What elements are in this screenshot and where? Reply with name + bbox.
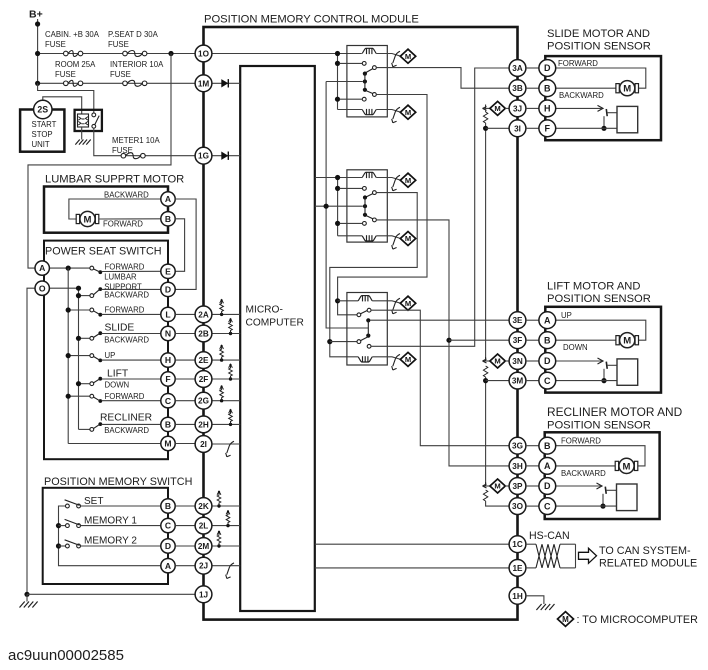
svg-text:2I: 2I — [200, 440, 207, 449]
lumbar motor box — [44, 187, 168, 233]
svg-text:C: C — [544, 376, 551, 386]
junction dot RY2 rail top — [335, 175, 340, 180]
wire B+ branch to relay switch — [38, 83, 94, 113]
position memory control module box — [204, 27, 518, 620]
fuse CABIN +B 30A — [64, 51, 83, 57]
junction dot rail1 slide — [66, 307, 71, 312]
wire slide wiper into sensor — [607, 112, 617, 114]
switch recliner backward — [90, 422, 102, 431]
junction dot RY1 rail top — [335, 51, 340, 56]
wire twist join — [575, 544, 577, 568]
contact RY2 lower throw — [373, 218, 377, 222]
svg-text:RECLINER: RECLINER — [100, 412, 152, 423]
wire lumbar B to E jog — [175, 219, 185, 271]
wire recliner B to motor — [556, 446, 645, 466]
svg-text:START: START — [32, 120, 57, 129]
junction dot memory rail C — [56, 523, 61, 528]
svg-text:3O: 3O — [512, 502, 524, 511]
svg-text:D: D — [165, 284, 171, 294]
svg-text:COMPUTER: COMPUTER — [246, 318, 304, 329]
wire rail2 stub lumbar-backward — [79, 295, 92, 297]
svg-text:B: B — [544, 441, 551, 451]
diamond to-microcomputer RY1b — [400, 105, 415, 119]
wire 2E into micro — [212, 359, 240, 361]
wire rail1 stub recliner-forward — [68, 395, 91, 397]
fuse METER1 10A — [121, 153, 145, 159]
wire 2B into micro — [212, 333, 240, 335]
wire slide B to motor — [556, 87, 616, 89]
svg-text:LIFT MOTOR AND: LIFT MOTOR AND — [547, 281, 640, 293]
fuse INTERIOR 10A — [123, 80, 147, 86]
connector module 2H — [195, 416, 212, 433]
wire RY2 upper fixed — [340, 187, 363, 189]
node B+ terminal dot — [35, 21, 40, 26]
svg-text:1H: 1H — [512, 592, 523, 601]
wire RY1 upper arm — [366, 69, 373, 73]
wire lumbar B to motor — [99, 218, 161, 220]
connector module 3O — [509, 498, 526, 515]
svg-text:CABIN. +B 30A: CABIN. +B 30A — [45, 30, 100, 39]
wire 3P stub — [483, 485, 491, 487]
svg-text:3B: 3B — [512, 84, 523, 93]
contact RY1 upper fixed — [362, 62, 366, 66]
junction dot rail2 slide — [76, 336, 81, 341]
wire 3M feed — [486, 380, 510, 382]
wire 3N diamond to connector — [505, 360, 509, 362]
wire 2K into micro — [212, 505, 240, 507]
svg-text:A: A — [165, 194, 171, 204]
svg-text:MEMORY 2: MEMORY 2 — [84, 536, 137, 547]
svg-text:B: B — [544, 83, 551, 93]
connector lift B — [539, 332, 556, 349]
connector slide D — [539, 60, 556, 77]
pull-up glyph at 2B — [229, 318, 233, 335]
junction dot relay3 lower feed — [327, 339, 332, 344]
wire 3B to B — [526, 87, 539, 89]
wire 3F feed — [449, 339, 509, 341]
switch slide forward — [90, 308, 102, 317]
connector memory-switch A — [161, 559, 175, 573]
wire 3J to H — [526, 107, 539, 109]
micro-computer box — [240, 66, 315, 611]
wire micro bus feed — [315, 205, 363, 207]
svg-text:LIFT: LIFT — [107, 368, 129, 379]
svg-text:METER1 10A: METER1 10A — [112, 136, 160, 145]
diamond to-microcomputer 3N — [490, 354, 505, 368]
svg-text:POSITION SENSOR: POSITION SENSOR — [547, 41, 651, 53]
sensor rail seg2 — [485, 123, 487, 361]
wire switch to C — [102, 400, 162, 402]
pull-up glyph at 2K — [217, 491, 221, 508]
wire RY1 rail to coil2 — [338, 109, 363, 111]
svg-text:H: H — [544, 104, 551, 114]
connector module 2J — [195, 557, 212, 574]
wiper arrow lift — [598, 358, 604, 364]
relay RY2 coil top — [362, 172, 376, 178]
wire micro to 1C — [315, 543, 509, 545]
svg-text:FUSE: FUSE — [55, 70, 76, 79]
stub arrow 3P — [483, 482, 487, 488]
wire 3P to D — [526, 485, 539, 487]
connector module 2G — [195, 392, 212, 409]
wire memory C row to module — [175, 525, 195, 527]
wire ground stem bottom-left — [26, 594, 28, 601]
svg-text:3J: 3J — [513, 104, 522, 113]
wire N row to module — [175, 333, 195, 335]
switch lumbar forward — [90, 266, 102, 274]
svg-text:STOP: STOP — [32, 130, 53, 139]
contact RY3 upper throw — [367, 308, 371, 312]
wire L row to module — [175, 313, 195, 315]
wiper arrow recliner — [597, 483, 603, 489]
recliner motor box — [545, 432, 660, 519]
svg-text:A: A — [544, 461, 551, 471]
detach arrow RY3 coil1 — [392, 298, 400, 314]
junction dot RY1 rail mid — [335, 61, 340, 66]
wire RY2 lower arm — [366, 216, 373, 219]
svg-text:M: M — [494, 482, 500, 491]
wire 3I to F — [526, 127, 539, 129]
wire 3A to D — [526, 67, 539, 69]
svg-text:L: L — [165, 309, 170, 319]
junction dot rail1 recliner — [66, 394, 71, 399]
wire 1H to ground — [526, 596, 544, 604]
svg-text:2J: 2J — [199, 562, 208, 571]
relay RY2 box — [347, 170, 387, 242]
arrow to CAN system — [579, 548, 597, 563]
wire RY2 coil1 feed — [315, 177, 362, 179]
start-stop unit box — [20, 110, 64, 152]
relay RY1 power rail — [337, 54, 339, 110]
wire switch to N — [102, 333, 162, 335]
svg-text:E: E — [165, 266, 171, 276]
detach arrow RY2 coil1 — [392, 175, 400, 191]
wire fuse row1 to 1O — [38, 53, 204, 55]
slide motor box — [545, 56, 661, 140]
svg-text:2L: 2L — [199, 522, 209, 531]
wire RY2 lower fixed — [340, 222, 363, 224]
wire RY2 coil2 to diamond — [376, 236, 400, 239]
fuse P.SEAT D 30A — [123, 51, 147, 57]
connector module 2F — [195, 371, 212, 388]
connector module 1O — [195, 45, 212, 62]
svg-text:POSITION SENSOR: POSITION SENSOR — [547, 420, 651, 432]
junction dot 3I — [483, 126, 488, 131]
svg-text:D: D — [544, 356, 551, 366]
svg-text:B+: B+ — [29, 9, 43, 21]
wire switch to F — [102, 378, 162, 380]
connector module 3B — [509, 80, 526, 97]
wiper contact slide — [605, 109, 608, 116]
motor slide M — [616, 81, 639, 96]
wire MEMORY1 to connector — [81, 525, 162, 527]
resistor zig 3N — [483, 366, 487, 377]
junction dot 3F tap — [446, 338, 451, 343]
wire 2I into micro — [212, 443, 240, 445]
diode after 1G — [221, 152, 228, 160]
svg-text:2G: 2G — [198, 397, 209, 406]
wire RY3 lower arm — [360, 337, 368, 341]
motor lift M — [616, 333, 639, 348]
wire memory A row to module — [175, 565, 195, 567]
svg-text:3I: 3I — [514, 124, 521, 133]
diamond to-microcomputer RY1a — [400, 49, 415, 63]
contact RY2 upper fixed — [363, 187, 367, 191]
connector recliner C — [539, 498, 556, 515]
svg-text:3A: 3A — [512, 64, 523, 73]
svg-text:C: C — [165, 396, 171, 406]
junction dot ground rail — [24, 592, 29, 597]
wire F row to module — [175, 378, 195, 380]
junction dot rail2 lift — [76, 381, 81, 386]
connector seat-switch M — [161, 436, 175, 450]
connector lift D — [539, 353, 556, 370]
svg-text:M: M — [494, 104, 500, 113]
resistor zig 3J — [483, 112, 487, 123]
svg-text:FUSE: FUSE — [112, 146, 133, 155]
twisted pair wire B — [536, 544, 560, 568]
detach arrow RY1 coil1 — [392, 51, 400, 67]
junction dot RY2 rail mid — [335, 186, 340, 191]
svg-text:B: B — [165, 419, 171, 429]
junction dot rail1 top — [66, 266, 71, 271]
svg-text:DOWN: DOWN — [563, 343, 588, 352]
svg-text:1M: 1M — [198, 79, 210, 88]
junction dot lift sensor — [601, 378, 606, 383]
wire RY1 common feed — [326, 81, 363, 83]
sensor rail seg4 — [486, 501, 510, 506]
position sensor slide — [617, 106, 638, 132]
svg-text:BACKWARD: BACKWARD — [104, 335, 149, 344]
svg-text:LUMBAR: LUMBAR — [104, 272, 137, 281]
contact RY1 upper throw — [373, 66, 377, 70]
connector seat-switch N — [161, 326, 175, 340]
wire memory rail stub D — [59, 545, 66, 547]
contact RY1 lower throw — [373, 93, 377, 97]
wire B+ vertical rail — [37, 19, 39, 83]
svg-text:INTERIOR 10A: INTERIOR 10A — [110, 60, 164, 69]
svg-text:M: M — [623, 461, 631, 472]
svg-text:SET: SET — [84, 496, 103, 507]
connector seat-switch D — [161, 282, 175, 296]
wire 1E to twist — [526, 567, 536, 569]
detach arrow RY3 coil2 — [392, 354, 400, 370]
svg-text:N: N — [165, 329, 171, 339]
svg-text:FORWARD: FORWARD — [105, 306, 145, 315]
svg-text:MICRO-: MICRO- — [246, 305, 283, 316]
svg-text:3P: 3P — [512, 482, 523, 491]
svg-text:SLIDE MOTOR AND: SLIDE MOTOR AND — [547, 28, 650, 40]
wire slide D to motor — [556, 68, 646, 88]
diamond to-microcomputer RY3a — [400, 296, 415, 310]
switch SET — [65, 500, 81, 508]
sensor rail seg1 — [485, 108, 487, 112]
svg-text:D: D — [544, 63, 551, 73]
svg-text:P.SEAT D 30A: P.SEAT D 30A — [108, 30, 159, 39]
stub arrow 3N — [483, 357, 487, 363]
wire switch to B — [102, 423, 162, 425]
svg-text:3H: 3H — [512, 462, 523, 471]
connector module 2A — [195, 306, 212, 323]
wire lift C to sensor — [556, 380, 617, 382]
connector module 2K — [195, 498, 212, 515]
junction dot row2 left — [35, 81, 40, 86]
wire relay K1 switch to METER1 fuse — [94, 128, 204, 156]
relay RY3 coil bottom — [358, 356, 372, 362]
diamond to-microcomputer RY2a — [400, 173, 415, 187]
connector seat-switch L — [161, 307, 175, 321]
svg-text:2S: 2S — [37, 105, 48, 115]
svg-text:3M: 3M — [512, 377, 524, 386]
position sensor lift — [617, 359, 638, 385]
wire 3O to C — [526, 505, 539, 507]
junction dot 3M — [483, 378, 488, 383]
wire rail1 stub lift-up — [68, 355, 91, 357]
svg-text:F: F — [165, 374, 170, 384]
pull-up glyph at 2A — [220, 299, 224, 316]
wire lift B to motor — [556, 339, 616, 341]
svg-text:H: H — [165, 355, 171, 365]
pull-up glyph at 2L — [226, 510, 230, 527]
svg-text:M: M — [405, 52, 411, 61]
svg-text:MEMORY 1: MEMORY 1 — [84, 515, 137, 526]
wire 3M to C — [526, 380, 539, 382]
connector module 3F — [509, 332, 526, 349]
connector module 3J — [509, 100, 526, 117]
svg-text:FORWARD: FORWARD — [105, 263, 145, 272]
wire relay3 lower fixed feed — [330, 341, 357, 343]
wire memory B row to module — [175, 505, 195, 507]
wire 1C to twist — [526, 543, 536, 545]
connector module 1H — [509, 587, 526, 604]
svg-text:3E: 3E — [512, 316, 523, 325]
lift motor box — [545, 307, 661, 393]
wire RY2 lower output to 3F and 3H — [376, 220, 509, 466]
svg-text:POSITION MEMORY SWITCH: POSITION MEMORY SWITCH — [44, 476, 192, 488]
junction dots RY2 common — [363, 195, 367, 217]
connector lumbar A — [161, 192, 175, 206]
junction dot row1 right — [168, 51, 173, 56]
wire A into switch common — [49, 267, 90, 269]
svg-text:O: O — [39, 283, 46, 293]
svg-text:UNIT: UNIT — [32, 140, 50, 149]
svg-text:SLIDE: SLIDE — [105, 323, 135, 334]
connector module 1G — [195, 147, 212, 164]
svg-text:BACKWARD: BACKWARD — [559, 91, 604, 100]
resistor zig 3P — [483, 490, 487, 501]
wire rail1 stub slide-forward — [68, 309, 91, 311]
svg-text:M: M — [84, 214, 92, 225]
junction dot RY2 rail low — [335, 221, 340, 226]
position sensor recliner — [617, 484, 638, 511]
connector recliner B — [539, 437, 556, 454]
wire RY3 bottom output to 3A — [371, 68, 509, 346]
wire C row to module — [175, 400, 195, 402]
connector lumbar B — [161, 212, 175, 226]
motor recliner M — [615, 458, 638, 473]
wire 2H into micro — [212, 423, 240, 425]
svg-text:D: D — [165, 541, 171, 551]
svg-text:F: F — [545, 124, 551, 134]
wire twist out top — [560, 543, 576, 545]
svg-text:1C: 1C — [512, 540, 523, 549]
svg-text:3F: 3F — [513, 336, 523, 345]
ground under relay K1 — [75, 140, 90, 145]
svg-text:M: M — [494, 357, 500, 366]
wire lift wiper to common — [603, 369, 605, 381]
pull-up glyph at 2G — [220, 385, 224, 402]
svg-text:M: M — [164, 439, 171, 449]
wire 2L into micro — [212, 525, 240, 527]
switch MEMORY1 — [65, 519, 81, 527]
wire micro to 1E — [315, 567, 509, 569]
switch slide backward — [90, 331, 102, 340]
fuse ROOM 25A — [64, 80, 83, 86]
svg-text:HS-CAN: HS-CAN — [529, 530, 570, 542]
wire RY3 arm link — [367, 320, 369, 335]
svg-text:FUSE: FUSE — [45, 40, 66, 49]
wire lift A to motor — [556, 320, 646, 340]
junction dot memory rail D — [56, 543, 61, 548]
wire slide F to sensor — [556, 127, 617, 129]
wire slide H wiper feed — [556, 107, 602, 109]
wire rail2 stub lift-down — [79, 383, 92, 385]
switch lift up — [90, 354, 102, 363]
wire ground rail to 1J — [27, 593, 195, 595]
diode after 1M — [221, 79, 228, 87]
svg-text:FORWARD: FORWARD — [103, 220, 143, 229]
position memory switch box — [43, 488, 168, 584]
connector module 3N — [509, 353, 526, 370]
svg-text:BACKWARD: BACKWARD — [104, 190, 149, 199]
svg-text:FORWARD: FORWARD — [558, 59, 598, 68]
connector module 3E — [509, 312, 526, 329]
relay K1 coil box — [78, 114, 89, 127]
wire 3N stub — [483, 360, 491, 362]
wire RY3 top output to 3G — [371, 310, 509, 446]
wire rail1 to M — [68, 443, 161, 445]
connector 2S — [34, 100, 52, 118]
wire memory rail — [59, 506, 162, 566]
wire 3N to D — [526, 360, 539, 362]
connector slide H — [539, 100, 556, 117]
svg-text:DOWN: DOWN — [105, 381, 130, 390]
svg-text:M: M — [405, 234, 411, 243]
svg-text:ac9uun00002585: ac9uun00002585 — [8, 647, 124, 664]
wire lumbar A to D jog — [175, 199, 196, 289]
wire memory D row to module — [175, 545, 195, 547]
wire 2J into micro — [212, 565, 240, 567]
wire RY3 coil2 to diamond — [372, 357, 400, 360]
diamond legend — [558, 612, 574, 627]
svg-text:2F: 2F — [199, 375, 209, 384]
wire RY3 arm output to 3E — [370, 319, 509, 321]
svg-text:1J: 1J — [199, 590, 208, 599]
wire 1G into micro — [212, 155, 240, 157]
svg-text:B: B — [165, 501, 171, 511]
svg-text:UP: UP — [105, 351, 116, 360]
contact RY2 lower fixed — [363, 222, 367, 226]
diamond to-microcomputer RY3b — [400, 352, 415, 366]
junction dot RY3 arm1 — [366, 318, 370, 322]
connector recliner D — [539, 478, 556, 495]
connector memory-switch D — [161, 539, 175, 553]
pull-up glyph at 2M — [217, 531, 221, 548]
ground at 1H — [536, 604, 554, 610]
wire MEMORY2 to connector — [81, 545, 162, 547]
junction dot recliner sensor — [600, 504, 605, 509]
connector seat-switch E — [161, 264, 175, 278]
